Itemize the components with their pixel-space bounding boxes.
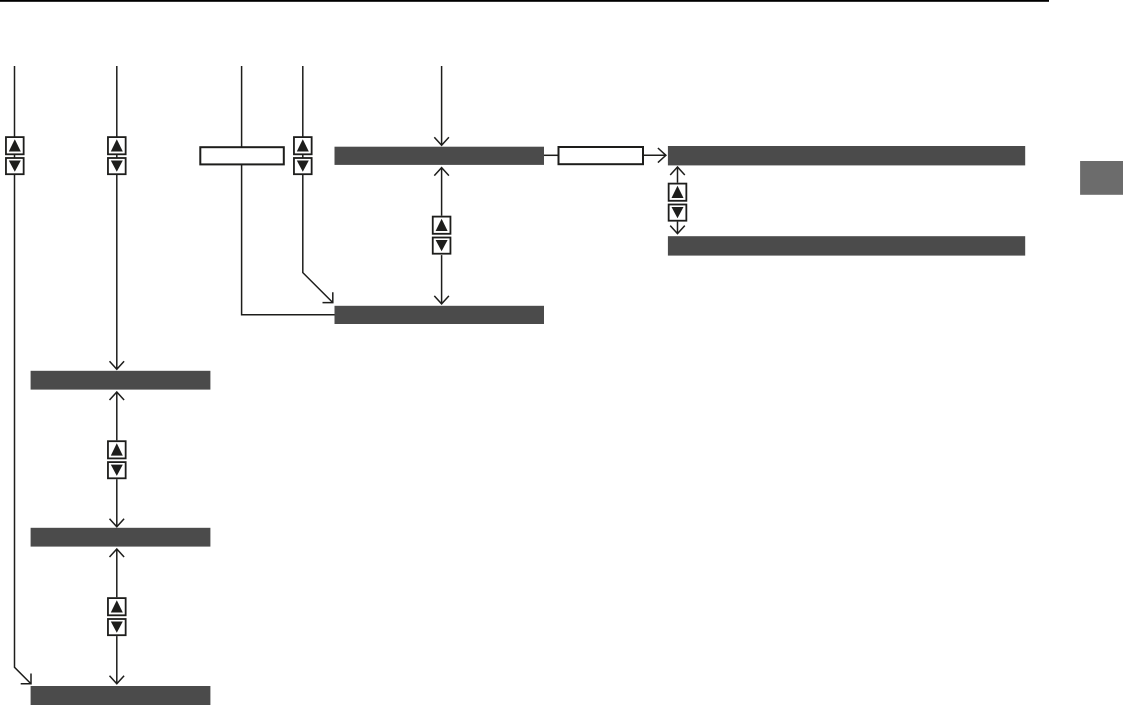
- wire L4: diagonal arrow into middle bar M2: [303, 66, 333, 303]
- double arrow between LB1 and LB2: [110, 392, 125, 527]
- middle bar M2: [335, 306, 545, 324]
- double arrow between LB2 and LB3: [110, 549, 125, 684]
- wire L1: left feed line down to bottom bar: [15, 66, 32, 684]
- middle bar M1: [335, 147, 545, 165]
- rocker button B4 between M1 and M2: [433, 217, 451, 254]
- rocker button B5 between LB1 and LB2: [108, 441, 126, 478]
- right bar R2: [668, 236, 1025, 255]
- left bar LB3: [31, 686, 211, 705]
- right bar R1: [668, 146, 1025, 165]
- white box W1: [200, 147, 283, 164]
- left bar LB1: [31, 371, 211, 390]
- rocker button B6 between LB2 and LB3: [108, 598, 126, 635]
- double arrow between R1 and R2: [670, 167, 685, 234]
- chapter tab: [1080, 161, 1123, 195]
- rocker button B1 on wire L1: [6, 137, 24, 174]
- arrow from W2 into right bar R1: [644, 148, 666, 163]
- wire L2: arrow into left bar LB1: [110, 66, 125, 369]
- wire L3: through box W1, bends right into middle bar M2: [242, 66, 335, 315]
- top rule: [0, 0, 1049, 2]
- wire from M1 to box W2: [544, 154, 558, 156]
- white box W2: [559, 147, 644, 164]
- left bar LB2: [31, 528, 211, 547]
- rocker button B2 on wire L2: [108, 137, 126, 174]
- rocker button B7 between R1 and R2: [669, 184, 687, 221]
- rocker button B3 on wire L4: [294, 137, 312, 174]
- double arrow between M1 and M2: [434, 168, 449, 304]
- wire L5: arrow into middle bar M1: [434, 66, 449, 145]
